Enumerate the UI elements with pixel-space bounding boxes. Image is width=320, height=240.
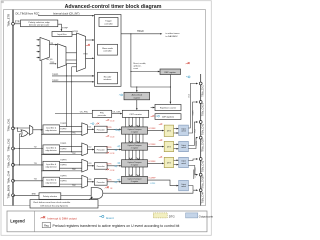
- input filter and edge detector CH3: [43, 161, 60, 170]
- wire comparator bus: [126, 117, 144, 176]
- corner caption remnant: [1, 1, 4, 3]
- svg-text:PSC: PSC: [100, 113, 105, 115]
- svg-text:OC4REF: OC4REF: [148, 178, 156, 180]
- pin ETR: [12, 22, 15, 25]
- wire CH3 input TI3: [13, 164, 43, 166]
- svg-text:Reset, enable,: Reset, enable,: [133, 62, 146, 65]
- svg-text:Polarity selection: Polarity selection: [43, 195, 57, 198]
- svg-text:TIMx_CH4: TIMx_CH4: [202, 191, 205, 203]
- prescaler CH4: [94, 179, 107, 186]
- svg-text:TIMx_CH4: TIMx_CH4: [7, 170, 11, 183]
- svg-text:Encoder: Encoder: [104, 75, 112, 78]
- svg-text:Interrupt & DMA output: Interrupt & DMA output: [47, 216, 77, 220]
- svg-text:BI: BI: [111, 188, 113, 190]
- wire to TIMx_CH2N: [188, 138, 197, 149]
- wire IC3PS: [107, 165, 121, 167]
- svg-text:OC3N: OC3N: [195, 167, 197, 172]
- pin TIMx_CH4: [12, 179, 15, 182]
- svg-text:TIMx_CH2: TIMx_CH2: [202, 123, 205, 135]
- wire OC3 OC3N: [174, 159, 179, 161]
- event mark output compare: [159, 156, 162, 158]
- svg-text:TI4FP4: TI4FP4: [60, 181, 66, 183]
- wire to TIMx_CH2: [188, 122, 197, 146]
- svg-text:TI1FP2: TI1FP2: [60, 128, 66, 130]
- svg-text:4 register: 4 register: [131, 180, 139, 183]
- wire into repetition counter: [151, 107, 155, 109]
- svg-text:Prescaler: Prescaler: [97, 129, 105, 132]
- prescaler CH1: [94, 126, 107, 133]
- page border: [1, 1, 211, 236]
- mux IC2 select: [82, 143, 88, 156]
- svg-text:TIMx_ETR: TIMx_ETR: [7, 14, 11, 27]
- legend output control sample: [186, 213, 198, 218]
- svg-text:ETRF: ETRF: [151, 183, 157, 185]
- svg-text:IC1PS: IC1PS: [106, 127, 112, 129]
- svg-text:edge detector: edge detector: [46, 166, 58, 169]
- svg-text:DTG: DTG: [167, 146, 172, 148]
- mux IC3 select: [82, 159, 88, 172]
- repetition counter: [155, 104, 181, 110]
- mux trigger selection: [58, 44, 67, 68]
- svg-text:Trigger: Trigger: [105, 19, 112, 22]
- svg-text:Capture/Compare: Capture/Compare: [127, 178, 141, 181]
- svg-text:edge detector: edge detector: [46, 181, 58, 184]
- svg-text:Polarity selection, edge: Polarity selection, edge: [29, 21, 51, 24]
- dead-time generator DTG CH3: [164, 157, 173, 167]
- event marks right of CNT: [151, 115, 155, 117]
- capture/compare 1 register: [122, 127, 148, 134]
- svg-text:to other timers: to other timers: [166, 32, 181, 35]
- svg-text:TIMx_CH1N: TIMx_CH1N: [202, 103, 205, 116]
- svg-text:IC3PS: IC3PS: [106, 164, 112, 166]
- svg-text:ETRF: ETRF: [73, 31, 79, 33]
- UIF copy box: [155, 114, 181, 120]
- right pin rail: [200, 74, 202, 206]
- wire compare transfer chevrons: [129, 141, 140, 143]
- svg-text:Input filter &: Input filter &: [46, 146, 57, 149]
- wire to auto-reload: [136, 87, 138, 92]
- capture/compare 3 register: [122, 160, 148, 167]
- svg-text:TIMx_CH3N: TIMx_CH3N: [202, 175, 205, 188]
- wire to TIMx_CH4: [188, 186, 197, 191]
- svg-text:TIMx_CH2: TIMx_CH2: [7, 138, 11, 151]
- svg-text:Clock failure event from clock: Clock failure event from clock controlle…: [33, 201, 71, 204]
- output control CH3: [179, 157, 189, 167]
- svg-text:IC1: IC1: [88, 127, 91, 129]
- svg-text:(UIF) (update): (UIF) (update): [162, 116, 174, 119]
- svg-text:CC2I: CC2I: [110, 136, 115, 138]
- svg-text:Input filter &: Input filter &: [46, 179, 57, 182]
- wire auto-reload to counter: [136, 100, 138, 110]
- wire ETRF to output stage: [193, 170, 195, 180]
- svg-text:Prescaler: Prescaler: [97, 181, 105, 184]
- mux ITR selection: [40, 38, 50, 61]
- left pin rail: [12, 10, 14, 206]
- wire ITR: [50, 44, 57, 46]
- input filter and edge detector CH1: [43, 125, 60, 134]
- prescaler CH3: [94, 163, 107, 170]
- svg-text:CK_CNT: CK_CNT: [112, 111, 121, 113]
- wire update event: [130, 33, 131, 34]
- svg-text:prescaler: prescaler: [98, 114, 107, 117]
- controller group box: [95, 15, 122, 87]
- PSC prescaler: [92, 110, 111, 117]
- svg-text:Input filter &: Input filter &: [46, 126, 57, 129]
- svg-text:Repetition counter: Repetition counter: [160, 107, 177, 110]
- svg-text:TRGO: TRGO: [137, 31, 144, 33]
- mux TRGI selection: [77, 33, 86, 72]
- wire CH2 input TI2: [13, 148, 43, 150]
- event mark U: [117, 146, 120, 148]
- legend interrupt & DMA output: [41, 216, 46, 218]
- svg-text:Advanced-control timer block d: Advanced-control timer block diagram: [65, 4, 162, 10]
- svg-text:CC1I: CC1I: [110, 120, 115, 122]
- XOR gate: [21, 130, 28, 137]
- svg-text:BRK: BRK: [32, 194, 37, 196]
- svg-text:TRC: TRC: [72, 169, 76, 171]
- svg-text:Event: Event: [106, 216, 114, 220]
- pin TIMx_CH2: [12, 147, 15, 150]
- svg-text:TI2: TI2: [34, 146, 37, 148]
- wire TRGI: [86, 57, 94, 59]
- svg-text:IC2: IC2: [88, 147, 91, 149]
- svg-text:CC4I: CC4I: [110, 170, 115, 172]
- svg-text:TI2FP2: TI2FP2: [60, 148, 66, 150]
- svg-text:CSS (Clock Security System): CSS (Clock Security System): [40, 204, 68, 207]
- svg-text:TIMx_CH2N: TIMx_CH2N: [202, 138, 205, 151]
- svg-text:OC2REF: OC2REF: [148, 144, 156, 146]
- wire selected trigger: [66, 52, 77, 54]
- wire ITR2: [37, 51, 40, 53]
- wire XOR feeders: [19, 133, 21, 135]
- REP register: [160, 69, 181, 75]
- svg-text:TIMx_CH1: TIMx_CH1: [202, 85, 205, 97]
- legend DTG sample: [153, 213, 167, 218]
- svg-text:Prescaler: Prescaler: [97, 149, 105, 152]
- svg-text:TI2FP1: TI2FP1: [60, 143, 66, 145]
- svg-text:IC4: IC4: [88, 179, 92, 181]
- svg-text:Preload registers transferred: Preload registers transferred to active …: [53, 224, 180, 228]
- wire TRC to CH1 mux: [42, 133, 82, 135]
- svg-text:TI3FP3: TI3FP3: [60, 160, 66, 162]
- svg-text:CK_TIM18 from RCC: CK_TIM18 from RCC: [15, 12, 39, 16]
- svg-text:count: count: [133, 67, 138, 70]
- wire CSS to gate: [89, 197, 93, 200]
- svg-text:Prescaler: Prescaler: [97, 165, 105, 168]
- svg-text:Output control: Output control: [199, 215, 213, 219]
- svg-text:controller: controller: [103, 50, 112, 53]
- wire CH1 input: [13, 127, 30, 129]
- svg-text:DTG: DTG: [169, 215, 175, 219]
- svg-text:TI1FP1: TI1FP1: [60, 123, 66, 125]
- wire TRC: [50, 63, 56, 65]
- wire to TIMx_CH1N: [188, 102, 197, 133]
- svg-text:Input filter: Input filter: [57, 33, 66, 36]
- wire compare transfer chevrons: [129, 158, 140, 160]
- svg-text:IC3: IC3: [88, 163, 91, 165]
- wire IC4PS: [107, 181, 121, 183]
- svg-text:OC2: OC2: [195, 129, 197, 133]
- prescaler CH2: [94, 146, 107, 153]
- svg-text:TI4FP3: TI4FP3: [60, 176, 66, 178]
- event mark U: [119, 94, 123, 96]
- wire TI1FP1 to mux: [67, 63, 77, 65]
- svg-text:OC2N: OC2N: [196, 140, 198, 145]
- event marks under PSC: [90, 123, 94, 125]
- wire OC1 OC1N: [174, 128, 179, 130]
- slave mode controller U2: [98, 44, 118, 55]
- wire to TIMx_CH3N: [188, 166, 197, 175]
- event mark TGI: [86, 44, 90, 46]
- wire ETRP: [58, 24, 62, 31]
- svg-text:Auto-reload: Auto-reload: [132, 94, 142, 97]
- svg-text:register: register: [133, 96, 140, 99]
- wire compare transfer chevrons: [129, 125, 140, 127]
- output control CH4: [179, 180, 189, 190]
- wire TI1F_ED: [66, 59, 77, 61]
- pin TIMx_CH1: [199, 82, 202, 85]
- svg-text:edge detector: edge detector: [46, 149, 58, 152]
- pin TIMx_BKIN: [12, 194, 15, 197]
- pin TIMx_CH3N: [199, 173, 202, 176]
- wire IC2PS: [107, 149, 121, 151]
- svg-text:Capture/Compare: Capture/Compare: [127, 144, 141, 147]
- svg-text:controller: controller: [104, 22, 113, 25]
- encoder interface U3: [98, 72, 118, 84]
- svg-text:DTG: DTG: [167, 131, 172, 133]
- clock failure event box: [30, 200, 98, 208]
- input filter and edge detector CH4: [43, 177, 60, 186]
- wire to input filter: [33, 129, 43, 131]
- event mark CC3I: [106, 152, 109, 154]
- wire TRC to CH3 mux: [42, 170, 82, 172]
- legend event: [99, 215, 104, 217]
- wire ETR: [14, 23, 20, 25]
- polarity selection, edge detector and prescaler box: [21, 20, 58, 27]
- wire TRGO: [121, 33, 162, 35]
- wire ITR0: [37, 39, 40, 41]
- output control CH1: [179, 125, 189, 135]
- svg-text:DTG: DTG: [167, 162, 172, 164]
- svg-text:Capture/Compare: Capture/Compare: [127, 161, 141, 164]
- event mark output compare: [159, 123, 162, 125]
- dead-time generator DTG CH2: [164, 141, 173, 151]
- pin TIMx_CH1N: [199, 101, 202, 104]
- pin TIMx_CH3: [199, 158, 202, 161]
- wire BRK: [13, 194, 39, 196]
- wire IC1PS: [107, 128, 121, 130]
- wire internal clock CK_INT: [38, 15, 94, 17]
- event mark output compare: [159, 139, 162, 141]
- event mark U: [117, 130, 120, 132]
- auto-reload register: [124, 92, 150, 100]
- event mark UI: [186, 62, 190, 64]
- wire CK_CNT: [112, 113, 122, 115]
- svg-text:TIMx_CH1: TIMx_CH1: [7, 118, 11, 131]
- svg-text:TRC: TRC: [72, 153, 76, 155]
- pin TIMx_CH4: [199, 189, 202, 192]
- event mark CC1I: [106, 119, 109, 121]
- svg-text:ETRP: ETRP: [62, 27, 68, 29]
- svg-text:OC3REF: OC3REF: [148, 161, 156, 163]
- svg-text:interface: interface: [104, 78, 113, 81]
- wire CH4 input TI4: [13, 180, 43, 182]
- wire brake output: [103, 191, 193, 193]
- wire CK_PSC: [55, 113, 92, 115]
- wire TRC to CH4 mux: [42, 186, 82, 188]
- input filter and edge detector CH2: [43, 145, 60, 154]
- svg-text:TI3FP4: TI3FP4: [60, 165, 66, 167]
- event mark U: [117, 179, 120, 181]
- input filter box: [52, 32, 72, 37]
- svg-text:2 register: 2 register: [131, 147, 139, 150]
- svg-text:OC1N: OC1N: [193, 110, 195, 115]
- wire ITR3: [37, 57, 40, 59]
- svg-text:OC1REF: OC1REF: [148, 128, 156, 130]
- event mark BI: [105, 186, 109, 188]
- capture/compare 2 register: [122, 143, 148, 150]
- svg-text:REP register: REP register: [165, 71, 177, 74]
- wire TI2FP2 to mux: [72, 66, 77, 68]
- pin TIMx_CH1: [12, 127, 15, 130]
- pin TIMx_CH2N: [199, 136, 202, 139]
- CNT counter: [122, 110, 148, 117]
- svg-text:IC2PS: IC2PS: [106, 147, 112, 149]
- svg-text:to DAC/ADC: to DAC/ADC: [166, 35, 179, 38]
- wire TRC to CH2 mux: [42, 154, 82, 156]
- legend box: [7, 211, 207, 232]
- capture/compare 4 register: [122, 176, 148, 183]
- diagram frame: [4, 10, 206, 206]
- svg-text:edge detector: edge detector: [46, 129, 58, 132]
- wire ITR1: [37, 45, 40, 47]
- svg-text:TRGI: TRGI: [83, 54, 88, 56]
- svg-text:TIMx_CH3: TIMx_CH3: [202, 160, 205, 172]
- mux TI1 select: [28, 132, 30, 134]
- svg-text:Capture/Compare: Capture/Compare: [127, 128, 141, 131]
- svg-text:IC4PS: IC4PS: [106, 180, 112, 182]
- pin TIMx_CH2: [199, 121, 202, 124]
- wire TRC rail: [41, 61, 43, 188]
- svg-text:TRC: TRC: [50, 62, 55, 64]
- svg-text:TIMx_CH3: TIMx_CH3: [7, 154, 11, 167]
- svg-text:Slave mode: Slave mode: [102, 48, 114, 50]
- svg-text:CNT counter: CNT counter: [129, 113, 142, 116]
- svg-text:TI1F_ED: TI1F_ED: [46, 59, 54, 61]
- wire OC2 OC2N: [174, 143, 179, 145]
- svg-text:Internal clock (CK_INT): Internal clock (CK_INT): [53, 11, 80, 15]
- svg-text:ETR: ETR: [15, 22, 20, 24]
- pin TIMx_CH3: [12, 164, 15, 167]
- svg-text:TI4: TI4: [34, 179, 38, 181]
- wire compare transfer chevrons: [129, 174, 140, 176]
- wire REP to repetition counter: [169, 75, 171, 104]
- svg-text:Reg: Reg: [44, 225, 49, 228]
- trigger controller U1: [99, 18, 118, 27]
- dead-time generator DTG CH1: [164, 125, 173, 136]
- svg-text:1 register: 1 register: [131, 131, 139, 134]
- svg-text:OC1: OC1: [189, 94, 191, 98]
- event mark CC2I: [106, 135, 109, 137]
- svg-text:TIMx_BKIN: TIMx_BKIN: [7, 185, 11, 199]
- wire to TIMx_CH1: [188, 84, 197, 129]
- svg-text:TI3: TI3: [34, 163, 37, 165]
- svg-text:CK_PSC: CK_PSC: [80, 111, 89, 113]
- svg-text:CC3I: CC3I: [110, 153, 115, 155]
- polarity selection box: [39, 193, 61, 200]
- event mark U: [186, 76, 190, 78]
- OR gate brake: [61, 195, 91, 197]
- mux IC1 select: [82, 123, 88, 136]
- mux IC4 select: [82, 175, 88, 188]
- event mark CC4I: [106, 169, 109, 171]
- wire ETRF: [72, 33, 77, 35]
- svg-text:3 register: 3 register: [131, 164, 139, 167]
- svg-text:Legend: Legend: [10, 219, 25, 224]
- output control CH2: [179, 141, 189, 151]
- wire to TIMx_CH3: [188, 159, 197, 161]
- event mark U: [117, 162, 120, 164]
- legend reg note: [42, 223, 51, 228]
- svg-text:TRC: TRC: [72, 133, 76, 135]
- svg-text:detector and prescaler: detector and prescaler: [29, 24, 50, 27]
- svg-text:Input filter &: Input filter &: [46, 163, 57, 166]
- svg-text:TRC: TRC: [72, 185, 76, 187]
